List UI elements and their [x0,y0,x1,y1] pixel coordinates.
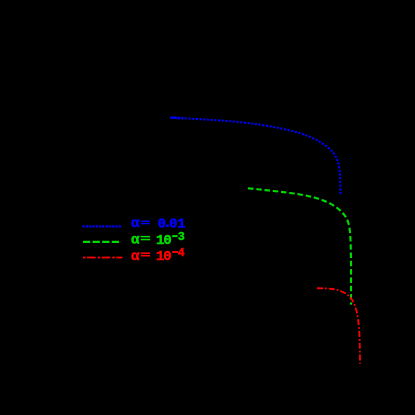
svg-text:0: 0 [163,233,171,249]
svg-text:α: α [131,216,140,232]
svg-text:0: 0 [158,217,166,233]
svg-text:α: α [131,249,140,265]
svg-text:0: 0 [163,249,171,265]
svg-text:α: α [131,233,140,249]
svg-text:4: 4 [178,247,185,260]
svg-text:0: 0 [169,217,177,233]
svg-text:3: 3 [178,231,185,244]
